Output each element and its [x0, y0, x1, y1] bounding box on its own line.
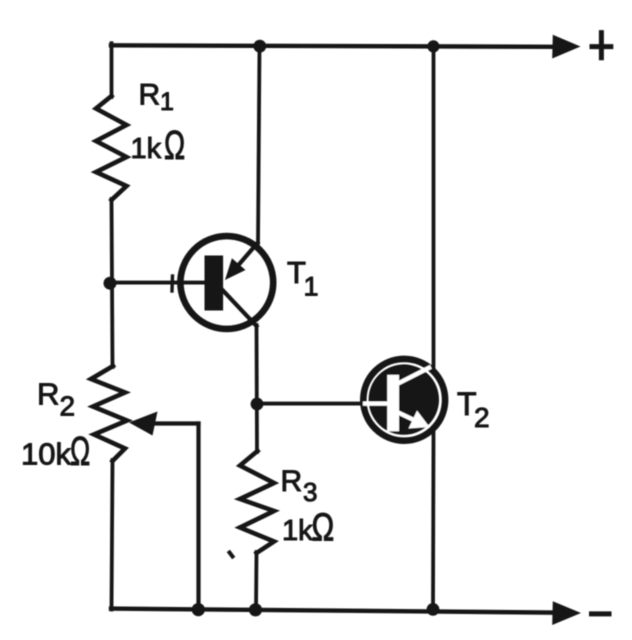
- plus label: [592, 33, 611, 58]
- wire middle vertical upper (collector feed T1): [258, 46, 260, 243]
- node top rail / right wire: [427, 40, 439, 52]
- node junction middle/base: [251, 398, 264, 411]
- node left wire / T1 base: [104, 277, 117, 290]
- wire wiper vertical: [196, 424, 200, 611]
- label 10kΩ (R2 value): [21, 430, 90, 475]
- label R1: [139, 79, 174, 117]
- svg-text:2: 2: [60, 391, 76, 422]
- wire top rail (+): [111, 45, 554, 47]
- T2 base bar (white): [387, 375, 399, 432]
- transistor T1 (PNP) circle: [180, 236, 273, 329]
- wire right vertical upper: [432, 46, 436, 368]
- node bottom rail / middle wire: [249, 603, 262, 616]
- wire left vertical middle segment: [112, 199, 113, 367]
- T1 emitter line: [238, 243, 258, 266]
- wire right vertical lower: [431, 433, 435, 611]
- wire wiper horizontal: [152, 421, 199, 425]
- svg-text:R: R: [281, 465, 303, 498]
- wire middle vertical lower (T1 collector to node): [255, 325, 259, 452]
- resistor R3: [240, 451, 274, 553]
- T2 inner black disc: [369, 364, 439, 434]
- svg-text:2: 2: [474, 402, 490, 433]
- T2 emitter line (white): [398, 413, 415, 421]
- node bottom rail / right wire: [427, 603, 440, 616]
- svg-text:Ω: Ω: [70, 430, 90, 475]
- minus label: [592, 611, 610, 616]
- svg-text:Ω: Ω: [312, 507, 335, 549]
- wire left vertical top segment: [110, 43, 114, 97]
- svg-text:1: 1: [160, 88, 174, 116]
- svg-text:1k: 1k: [131, 133, 162, 165]
- T1 base bar: [205, 256, 224, 311]
- label R3: [281, 465, 318, 507]
- wire bottom rail (-): [111, 609, 554, 613]
- wire middle vertical below R3: [254, 552, 258, 611]
- wire left vertical bottom segment: [112, 460, 113, 610]
- wire T1 base: [112, 281, 206, 285]
- node top rail / middle wire: [253, 40, 266, 53]
- stray tick on base wire: [170, 276, 174, 291]
- arrowhead bottom rail: [552, 601, 581, 625]
- T2 collector line (white): [398, 368, 429, 384]
- svg-text:Ω: Ω: [164, 123, 185, 168]
- wiper arrow of R2: [129, 412, 158, 436]
- label 1kΩ (R3 value): [282, 507, 334, 549]
- T1 collector line: [221, 289, 257, 327]
- label 1kΩ (R1 value): [131, 123, 186, 168]
- arrowhead top rail: [552, 35, 580, 59]
- wire T2 base: [257, 402, 364, 406]
- resistor R1: [96, 96, 127, 200]
- node bottom rail / wiper: [192, 603, 205, 616]
- svg-text:R: R: [37, 377, 59, 412]
- T2 base line (white): [365, 401, 388, 405]
- T2 emitter arrowhead (white): [409, 411, 430, 429]
- svg-text:R: R: [139, 79, 161, 112]
- label T1: [287, 255, 319, 302]
- svg-text:1: 1: [304, 272, 319, 302]
- svg-text:3: 3: [303, 477, 317, 507]
- svg-text:1k: 1k: [282, 515, 313, 547]
- svg-text:10k: 10k: [21, 437, 71, 472]
- print speck near R3: [230, 553, 233, 557]
- T1 emitter arrowhead: [225, 258, 246, 280]
- transistor T2 (NPN, negative style) outline ring: [363, 359, 445, 441]
- label R2: [37, 377, 75, 422]
- potentiometer R2: [91, 366, 127, 461]
- label T2: [457, 386, 490, 433]
